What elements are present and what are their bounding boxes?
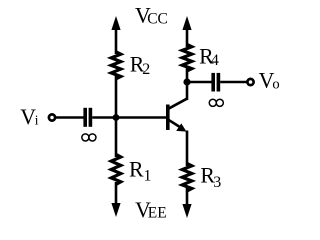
emitter arrowhead xyxy=(176,123,186,131)
VEE arrow (left rail) xyxy=(111,203,120,217)
output terminal circle xyxy=(247,79,253,85)
VCC arrow (right rail) xyxy=(182,16,191,30)
label Vo xyxy=(259,69,280,93)
emitter lead xyxy=(169,120,184,129)
svg-text:3: 3 xyxy=(213,174,221,191)
node collector junction xyxy=(183,78,190,85)
label infinity (input cap) xyxy=(82,134,96,141)
label VEE xyxy=(135,198,167,222)
svg-text:i: i xyxy=(35,113,39,128)
resistor R4 xyxy=(182,44,192,71)
label infinity (output cap) xyxy=(209,99,223,106)
wire left rail middle (R2 to base node) xyxy=(115,76,118,118)
resistor R3 xyxy=(182,163,192,191)
input terminal circle xyxy=(49,114,55,120)
resistor R1 xyxy=(111,154,121,184)
svg-text:4: 4 xyxy=(211,52,219,69)
VCC arrow (left rail) xyxy=(111,16,120,30)
resistor R2 xyxy=(111,52,121,79)
svg-text:1: 1 xyxy=(144,167,152,184)
wire collector vertical (node to transistor) xyxy=(186,82,189,100)
label R1 xyxy=(129,158,152,185)
wire left rail bottom (R1 to VEE) xyxy=(115,182,118,205)
wire output (capacitor to terminal) xyxy=(220,81,247,83)
label R4 xyxy=(199,45,219,69)
capacitor C1 (input, infinite) xyxy=(83,108,92,127)
label R2 xyxy=(130,52,150,78)
label R3 xyxy=(200,164,221,191)
svg-text:o: o xyxy=(272,77,279,93)
collector lead xyxy=(169,98,188,108)
label Vi xyxy=(20,105,38,129)
wire emitter vertical (transistor to R3) xyxy=(186,131,189,167)
svg-text:EE: EE xyxy=(148,205,167,222)
label VCC xyxy=(135,4,168,28)
svg-text:2: 2 xyxy=(142,61,150,78)
wire right rail bottom (R3 to VEE) xyxy=(186,188,189,205)
svg-text:R: R xyxy=(129,158,144,182)
VEE arrow (right rail) xyxy=(182,204,191,218)
svg-text:CC: CC xyxy=(147,11,168,28)
wire base (capacitor to transistor base) xyxy=(92,116,166,118)
wire input (terminal to capacitor) xyxy=(56,116,85,118)
wire right rail (R4 to collector node) xyxy=(186,68,189,83)
base bar xyxy=(166,105,170,131)
node base junction xyxy=(113,114,120,121)
wire left rail lower (base node to R1) xyxy=(115,117,118,157)
wire left rail upper (VCC to R2) xyxy=(115,28,118,54)
capacitor C2 (output, infinite) xyxy=(211,73,220,92)
transistor Q1 xyxy=(166,98,188,131)
wire output (collector node to capacitor) xyxy=(187,81,212,83)
wire right rail upper (VCC to R4) xyxy=(186,28,189,47)
